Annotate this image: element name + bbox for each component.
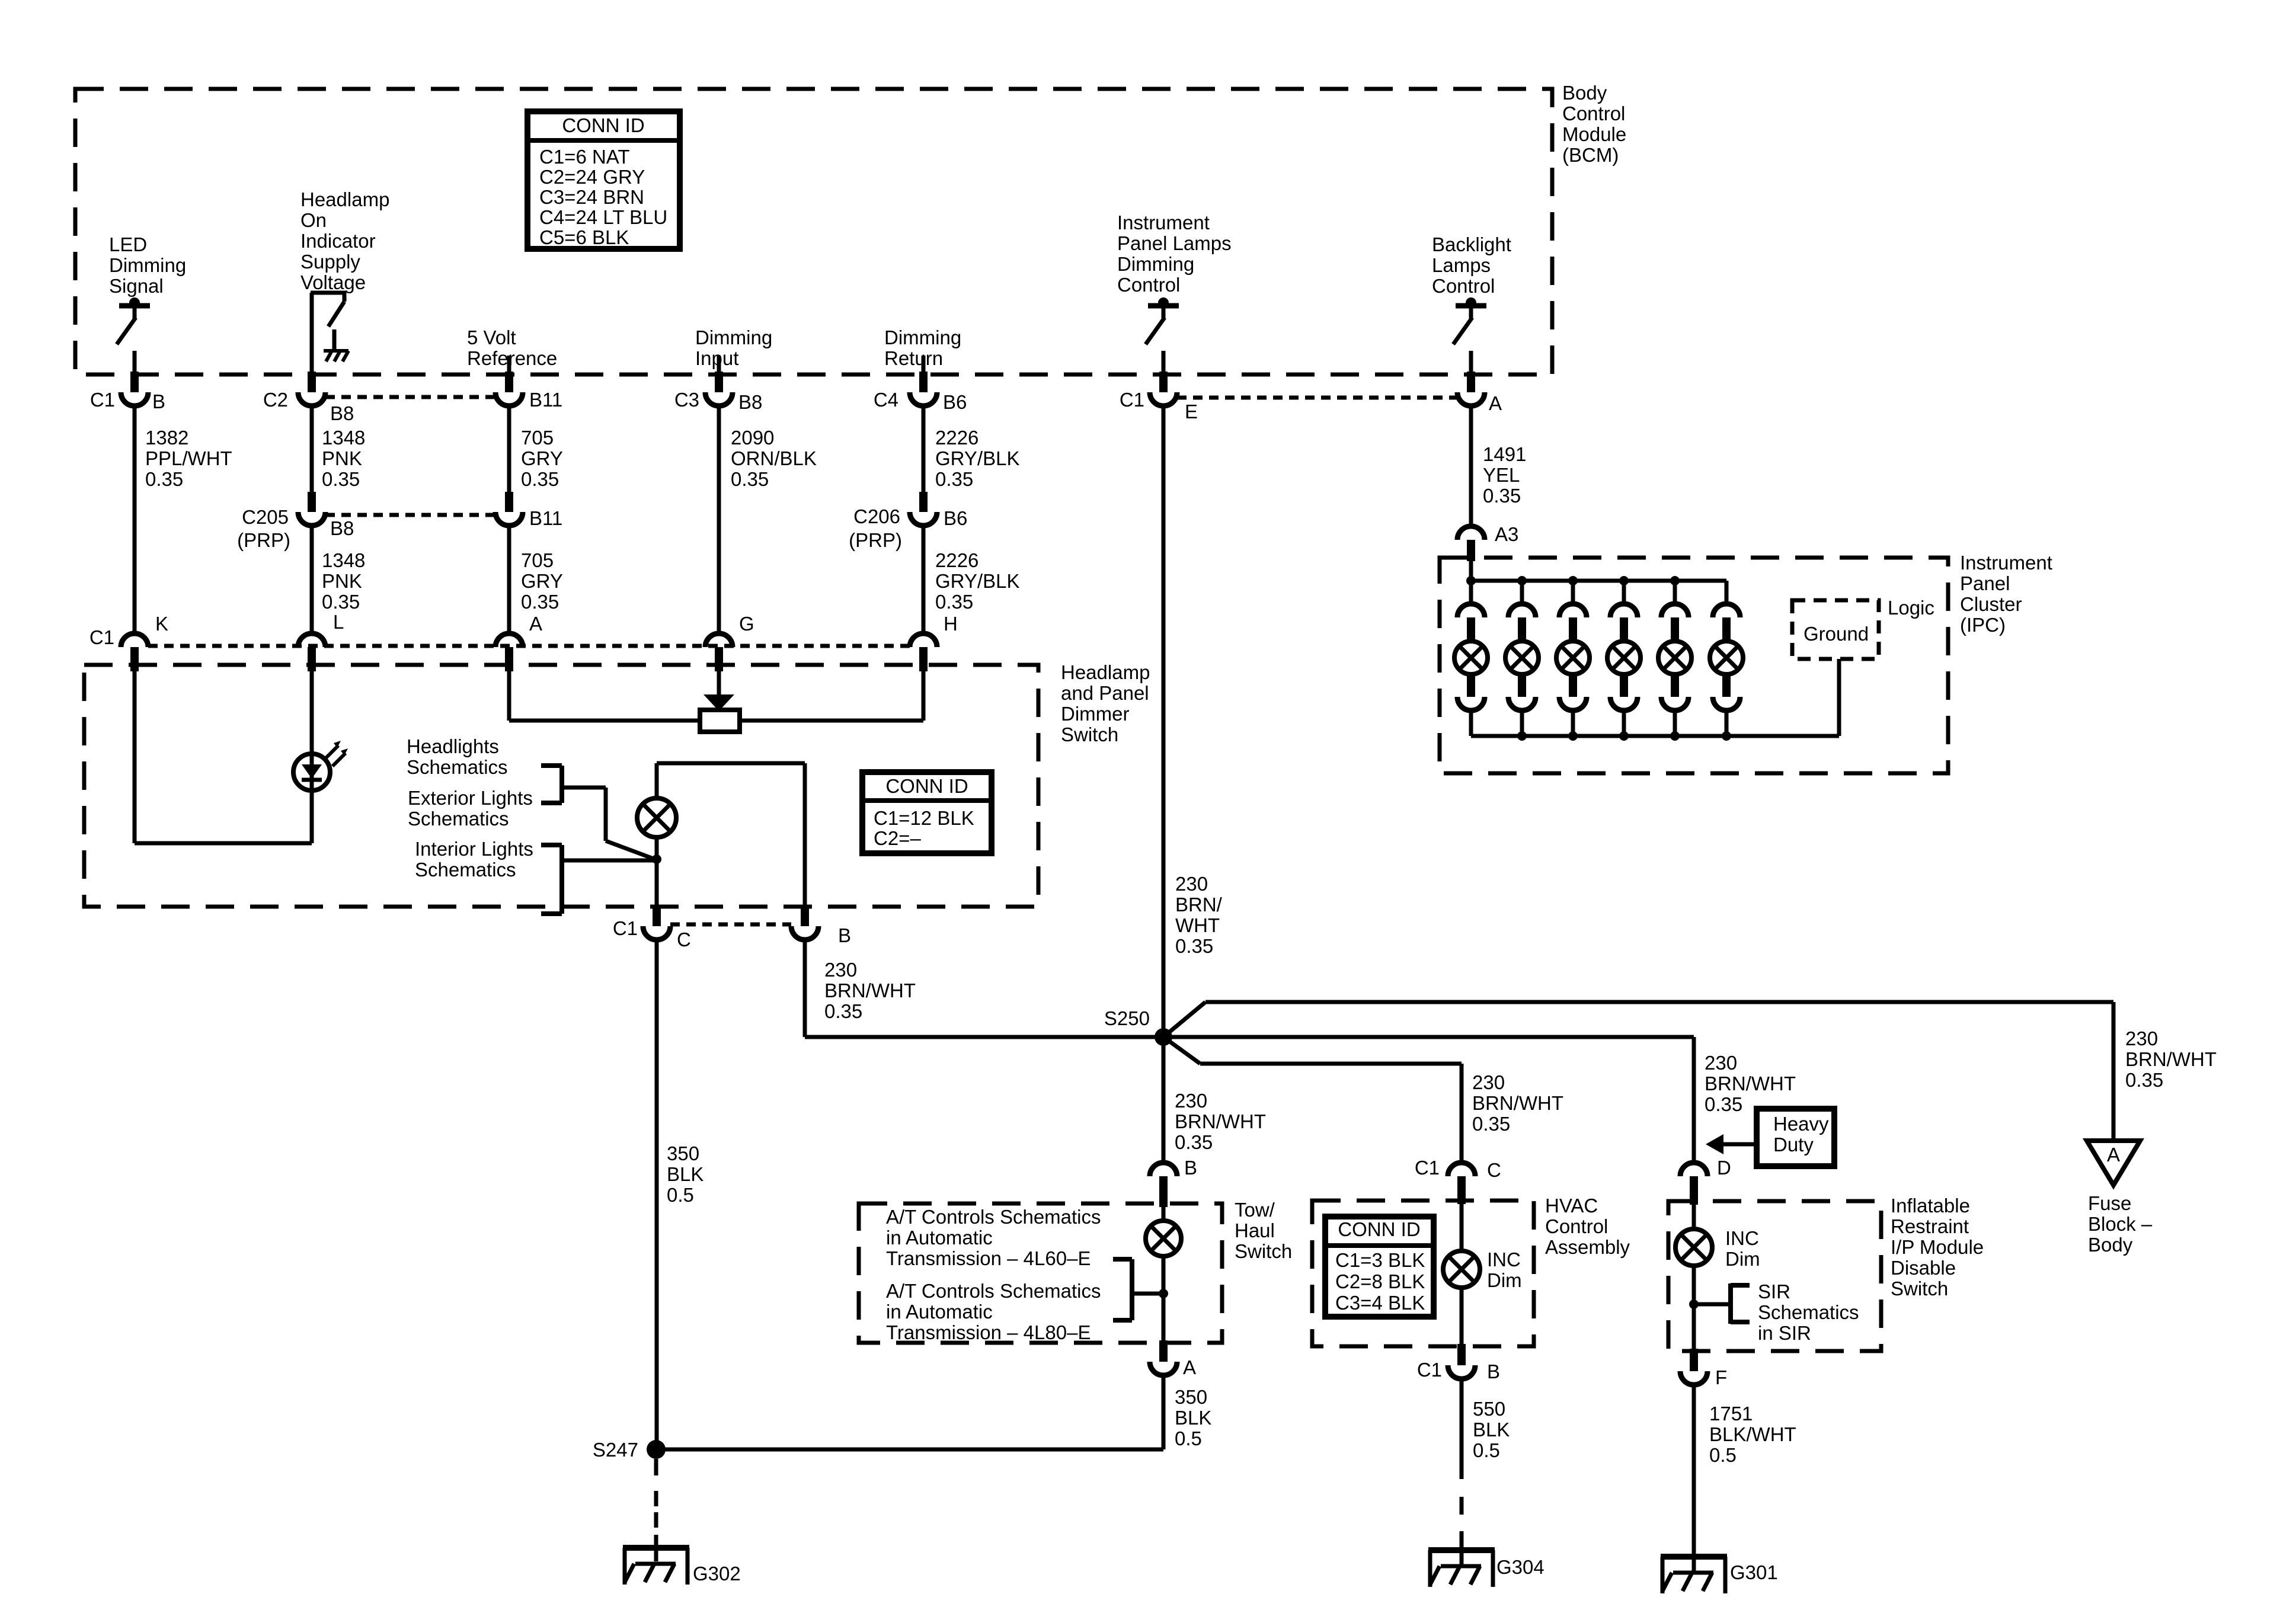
svg-text:Inflatable: Inflatable — [1891, 1195, 1970, 1217]
resistor element of dimmer potentiometer — [700, 710, 740, 732]
svg-text:Instrument: Instrument — [1960, 552, 2052, 574]
svg-text:Transmission – 4L80–E: Transmission – 4L80–E — [886, 1321, 1091, 1343]
svg-text:Dimming: Dimming — [884, 327, 961, 348]
svg-text:YEL: YEL — [1483, 464, 1520, 486]
label INC Dim (disable switch) — [1725, 1227, 1760, 1270]
svg-text:Supply: Supply — [300, 251, 360, 273]
dotted connector line K-L-A-G-H — [148, 644, 910, 648]
svg-text:CONN ID: CONN ID — [1338, 1218, 1420, 1240]
connector C1 pin K — [89, 613, 168, 671]
svg-text:2090: 2090 — [731, 427, 774, 449]
svg-text:Control: Control — [1562, 103, 1625, 124]
IPC backlight bulb 2 with sockets — [1505, 576, 1539, 736]
svg-text:A: A — [2107, 1144, 2120, 1166]
wire 230 BRN/WHT 0.35 to HVAC — [1462, 1064, 1563, 1163]
svg-text:A/T Controls Schematics: A/T Controls Schematics — [886, 1280, 1101, 1302]
svg-text:I/P Module: I/P Module — [1891, 1236, 1984, 1258]
connector C1 pin B (HVAC) — [1417, 1344, 1500, 1382]
svg-text:C3=24 BRN: C3=24 BRN — [539, 186, 644, 208]
svg-text:PNK: PNK — [322, 570, 362, 592]
svg-text:Dimming: Dimming — [695, 327, 772, 348]
wire 230 BRN/WHT 0.35 to fuse block — [2113, 1002, 2217, 1141]
connector C206 (PRP) pin B6 — [849, 492, 967, 551]
wire HVAC lamp to pin B — [1460, 1288, 1464, 1344]
svg-text:Body: Body — [2088, 1234, 2133, 1256]
wire dimming return inside BCM — [922, 356, 926, 375]
connector pin A (backlight lamps control) — [1457, 372, 1502, 414]
connector pin L — [298, 611, 344, 671]
connector C2 pin B8 — [263, 372, 354, 424]
label Headlights Schematics — [407, 735, 508, 778]
svg-text:Lamps: Lamps — [1432, 254, 1491, 276]
wire 705 GRY 0.35 upper — [509, 406, 563, 492]
svg-text:0.5: 0.5 — [1175, 1427, 1202, 1449]
wire 350 BLK 0.5 from dimmer pin C — [657, 940, 703, 1449]
wire 1348 PNK 0.35 lower — [312, 526, 365, 635]
svg-text:Dimming: Dimming — [109, 254, 186, 276]
bracket to A/T controls schematics — [1113, 1259, 1163, 1320]
label Headlamp and Panel Dimmer Switch — [1061, 661, 1150, 745]
svg-text:G304: G304 — [1496, 1556, 1544, 1578]
svg-text:C3: C3 — [674, 389, 699, 411]
IPC backlight bulb 6 with sockets — [1710, 581, 1743, 736]
svg-text:G301: G301 — [1730, 1561, 1778, 1583]
splice S247 — [593, 1439, 666, 1461]
wire tow/haul lamp to pin A — [1162, 1256, 1166, 1340]
svg-text:Switch: Switch — [1061, 724, 1118, 745]
svg-text:Disable: Disable — [1891, 1257, 1956, 1279]
dotted connector line E to A — [1177, 396, 1457, 400]
label Instrument Panel Lamps Dimming Control — [1117, 212, 1232, 296]
svg-text:Control: Control — [1117, 274, 1180, 296]
label Interior Lights Schematics — [415, 838, 533, 881]
connector pin A (tow/haul) — [1150, 1340, 1196, 1378]
svg-text:Exterior Lights: Exterior Lights — [408, 787, 533, 809]
wire 230 BRN/WHT 0.35 from pin E — [1163, 406, 1223, 1037]
svg-text:CONN ID: CONN ID — [885, 775, 968, 797]
svg-text:0.35: 0.35 — [1175, 935, 1213, 957]
connector pin F — [1680, 1349, 1727, 1388]
svg-text:B8: B8 — [330, 402, 354, 424]
svg-text:Dim: Dim — [1725, 1248, 1760, 1270]
wire L leg above LED — [310, 671, 314, 754]
svg-text:Restraint: Restraint — [1891, 1215, 1969, 1237]
svg-text:Schematics: Schematics — [407, 756, 508, 778]
svg-text:C2=24 GRY: C2=24 GRY — [539, 166, 645, 188]
label INC Dim (HVAC) — [1487, 1249, 1522, 1291]
wire from dimmer lamp bottom — [655, 836, 659, 905]
svg-text:A/T Controls Schematics: A/T Controls Schematics — [886, 1206, 1101, 1228]
wire IPC bus to logic ground — [1837, 659, 1841, 736]
connector pin B (dimmer) — [791, 905, 851, 946]
svg-text:(IPC): (IPC) — [1960, 614, 2006, 636]
ground inside BCM for headlamp-on indicator — [324, 329, 348, 361]
svg-text:Block –: Block – — [2088, 1213, 2153, 1235]
wire over to pin B — [657, 761, 805, 766]
label SIR Schematics in SIR — [1758, 1281, 1859, 1344]
label Logic — [1888, 597, 1934, 619]
label Tow/ Haul Switch — [1235, 1199, 1292, 1262]
svg-text:0.35: 0.35 — [2125, 1069, 2163, 1091]
Headlamp and Panel Dimmer Switch dashed box — [84, 665, 1038, 907]
wire S250 down-right branch to HVAC — [1163, 1037, 1462, 1064]
svg-text:C2=–: C2=– — [874, 827, 921, 849]
wire 230 BRN/WHT 0.35 to tow/haul — [1175, 1090, 1266, 1153]
label LED Dimming Signal — [109, 233, 186, 297]
svg-text:0.35: 0.35 — [935, 468, 973, 490]
svg-text:Ground: Ground — [1803, 623, 1869, 645]
svg-text:Voltage: Voltage — [300, 271, 366, 293]
IPC logic ground dashed box — [1792, 600, 1879, 659]
svg-text:0.35: 0.35 — [521, 468, 559, 490]
connector pin A (dimmer) — [495, 613, 542, 671]
HVAC Control Assembly dashed box — [1312, 1201, 1534, 1346]
svg-text:in Automatic: in Automatic — [886, 1227, 993, 1249]
wire 2226 GRY/BLK 0.35 upper — [923, 406, 1019, 492]
switch Backlight Lamps Control driver — [1453, 297, 1486, 375]
svg-text:5 Volt: 5 Volt — [467, 327, 516, 348]
switch LED Dimming Signal driver — [117, 297, 150, 375]
svg-text:Logic: Logic — [1888, 597, 1934, 619]
lamp tow/haul switch illumination — [1146, 1207, 1181, 1256]
svg-text:A: A — [1489, 392, 1502, 414]
svg-text:L: L — [333, 611, 344, 633]
connector C1 pin E — [1120, 372, 1198, 422]
svg-text:Control: Control — [1545, 1215, 1608, 1237]
svg-text:GRY: GRY — [521, 570, 563, 592]
svg-text:A: A — [529, 613, 542, 635]
wire S247 to ground G302 — [654, 1459, 658, 1561]
bracket to SIR schematics — [1697, 1283, 1750, 1324]
svg-text:Tow/: Tow/ — [1235, 1199, 1275, 1221]
svg-text:350: 350 — [1175, 1386, 1207, 1408]
label Dimming Return — [884, 327, 961, 369]
wire K leg inside dimmer — [133, 671, 137, 843]
splice S250 — [1104, 1007, 1172, 1046]
svg-text:S247: S247 — [593, 1439, 638, 1461]
bracket to headlights/exterior lights schematics — [541, 766, 655, 859]
svg-text:C206: C206 — [853, 505, 900, 527]
svg-text:A3: A3 — [1495, 523, 1518, 545]
svg-text:Cluster: Cluster — [1960, 593, 2022, 615]
svg-text:1491: 1491 — [1483, 443, 1526, 465]
label Exterior Lights Schematics — [408, 787, 533, 830]
connector C1 pin C (HVAC) — [1415, 1157, 1501, 1204]
svg-text:B6: B6 — [943, 391, 967, 413]
svg-text:Reference: Reference — [467, 347, 557, 369]
svg-text:0.35: 0.35 — [731, 468, 769, 490]
wire 230 BRN/WHT 0.35 to disable switch — [1694, 1037, 1796, 1163]
Tow/Haul Switch dashed box — [859, 1204, 1222, 1343]
connector C1 pin B — [90, 372, 165, 412]
svg-text:Module: Module — [1562, 123, 1626, 145]
svg-text:0.35: 0.35 — [521, 591, 559, 613]
potentiometer wiper arrow from pin G — [703, 671, 734, 711]
svg-text:0.35: 0.35 — [1705, 1093, 1742, 1115]
svg-text:0.5: 0.5 — [1473, 1439, 1500, 1461]
svg-text:BRN/WHT: BRN/WHT — [824, 980, 916, 1001]
label A/T Controls Schematics 4L60-E — [886, 1206, 1101, 1269]
svg-text:C1: C1 — [1415, 1157, 1440, 1179]
svg-text:BLK: BLK — [667, 1163, 703, 1185]
svg-text:C1: C1 — [613, 917, 638, 939]
svg-text:HVAC: HVAC — [1545, 1195, 1598, 1217]
connector C4 pin B6 — [874, 372, 967, 413]
wire L leg below LED — [310, 790, 314, 843]
svg-text:in Automatic: in Automatic — [886, 1301, 993, 1323]
svg-text:C1: C1 — [1120, 389, 1144, 411]
svg-text:C1=12 BLK: C1=12 BLK — [874, 807, 974, 829]
IPC backlight bulb 5 with sockets — [1658, 576, 1691, 736]
svg-text:GRY/BLK: GRY/BLK — [935, 570, 1019, 592]
dotted connector line C2 to B11 — [325, 395, 495, 399]
label Body Control Module (BCM) — [1562, 82, 1626, 166]
svg-text:BLK: BLK — [1473, 1419, 1510, 1441]
wire disable lamp to pin F — [1692, 1266, 1696, 1349]
junction tow/haul lamp tap — [1159, 1289, 1168, 1298]
svg-text:0.35: 0.35 — [322, 591, 360, 613]
svg-text:C4: C4 — [874, 389, 898, 411]
svg-text:B11: B11 — [529, 389, 562, 411]
connector in-line pin A3 — [1457, 523, 1518, 561]
connector pin G — [705, 613, 754, 671]
IPC backlight bulb 3 with sockets — [1556, 576, 1590, 736]
wire A3 into IPC — [1469, 560, 1473, 581]
wire H leg to potentiometer — [740, 671, 923, 721]
svg-text:PNK: PNK — [322, 447, 362, 469]
label Ground — [1803, 623, 1869, 645]
svg-text:ORN/BLK: ORN/BLK — [731, 447, 817, 469]
svg-text:Indicator: Indicator — [300, 230, 376, 252]
svg-text:INC: INC — [1725, 1227, 1759, 1249]
svg-text:Interior Lights: Interior Lights — [415, 838, 533, 860]
dotted connector line C to B — [670, 923, 791, 927]
svg-text:S250: S250 — [1104, 1007, 1150, 1029]
wire pin B leg inside dimmer — [803, 763, 807, 907]
svg-text:C1: C1 — [1417, 1359, 1442, 1381]
svg-text:D: D — [1717, 1157, 1731, 1179]
svg-text:in SIR: in SIR — [1758, 1322, 1811, 1344]
label HVAC Control Assembly — [1545, 1195, 1630, 1258]
svg-text:C1: C1 — [89, 626, 114, 648]
svg-text:550: 550 — [1473, 1398, 1505, 1420]
svg-text:Body: Body — [1562, 82, 1607, 104]
svg-text:Switch: Switch — [1891, 1278, 1948, 1299]
svg-text:2226: 2226 — [935, 549, 978, 571]
svg-text:C5=6 BLK: C5=6 BLK — [539, 226, 629, 248]
svg-text:C: C — [677, 929, 691, 950]
svg-text:230: 230 — [824, 959, 857, 981]
svg-text:350: 350 — [667, 1142, 699, 1164]
Inflatable Restraint I/P Module Disable Switch dashed box — [1668, 1201, 1881, 1351]
svg-text:Haul: Haul — [1235, 1219, 1275, 1241]
wire 230 BRN/WHT 0.35 from dimmer pin B — [805, 940, 1163, 1037]
svg-text:LED: LED — [109, 233, 147, 255]
svg-text:0.35: 0.35 — [322, 468, 360, 490]
svg-text:230: 230 — [1472, 1071, 1505, 1093]
svg-text:Panel Lamps: Panel Lamps — [1117, 232, 1232, 254]
svg-text:GRY: GRY — [521, 447, 563, 469]
svg-text:Schematics: Schematics — [415, 859, 516, 881]
svg-text:Headlamp: Headlamp — [1061, 661, 1150, 683]
svg-text:BRN/: BRN/ — [1175, 894, 1223, 916]
svg-text:F: F — [1715, 1366, 1727, 1388]
label A/T Controls Schematics 4L80-E — [886, 1280, 1101, 1343]
connector in-line pin B11 lower — [495, 492, 562, 529]
svg-text:Signal: Signal — [109, 275, 164, 297]
wire 350 BLK 0.5 to S247 — [656, 1375, 1211, 1449]
wire 5V reference inside BCM — [507, 356, 511, 375]
svg-text:B: B — [838, 924, 851, 946]
wire S250 up-right branch to fuse block — [1163, 1002, 2113, 1037]
arrow from Heavy Duty tag to wire — [1706, 1134, 1755, 1154]
wire dimming input inside BCM — [717, 356, 721, 375]
svg-text:Headlights: Headlights — [407, 735, 499, 757]
CONN ID table for BCM connectors — [527, 111, 680, 249]
svg-text:705: 705 — [521, 427, 554, 449]
svg-text:CONN ID: CONN ID — [562, 114, 644, 136]
svg-text:B: B — [1184, 1157, 1197, 1179]
svg-text:Dim: Dim — [1487, 1269, 1522, 1291]
svg-text:GRY/BLK: GRY/BLK — [935, 447, 1019, 469]
svg-text:Heavy: Heavy — [1773, 1113, 1829, 1135]
svg-text:BRN/WHT: BRN/WHT — [1705, 1073, 1796, 1094]
svg-text:SIR: SIR — [1758, 1281, 1790, 1302]
svg-text:Switch: Switch — [1235, 1240, 1292, 1262]
Heavy Duty tag box — [1757, 1109, 1834, 1166]
svg-text:G302: G302 — [693, 1563, 741, 1585]
label Fuse Block - Body — [2088, 1192, 2153, 1256]
svg-text:C205: C205 — [242, 506, 289, 528]
svg-text:Return: Return — [884, 347, 943, 369]
dotted connector line C205 to B11 — [325, 513, 495, 517]
label Headlamp On Indicator Supply Voltage — [300, 188, 389, 293]
svg-text:Instrument: Instrument — [1117, 212, 1210, 233]
svg-text:(PRP): (PRP) — [237, 529, 290, 551]
svg-text:C2=8 BLK: C2=8 BLK — [1335, 1270, 1425, 1292]
wire 1382 PPL/WHT 0.35 — [135, 406, 232, 635]
wire 550 BLK 0.5 to ground G304 — [1462, 1379, 1510, 1565]
label Inflatable Restraint I/P Module Disable Switch — [1891, 1195, 1984, 1299]
connector C3 pin B8 — [674, 372, 763, 413]
svg-text:H: H — [944, 613, 958, 635]
svg-text:Assembly: Assembly — [1545, 1236, 1630, 1258]
ground G302 — [623, 1547, 741, 1585]
svg-text:PPL/WHT: PPL/WHT — [145, 447, 232, 469]
wire from dimmer lamp top — [655, 763, 659, 799]
svg-text:B6: B6 — [944, 507, 967, 529]
svg-text:Dimming: Dimming — [1117, 253, 1194, 275]
label Dimming Input — [695, 327, 772, 369]
svg-text:B11: B11 — [529, 507, 562, 529]
svg-text:Transmission – 4L60–E: Transmission – 4L60–E — [886, 1247, 1091, 1269]
svg-text:G: G — [739, 613, 754, 635]
IPC feed bus — [1466, 576, 1726, 585]
svg-text:Backlight: Backlight — [1432, 233, 1511, 255]
svg-text:BRN/WHT: BRN/WHT — [1175, 1110, 1266, 1132]
wire S250 right branch to disable switch — [1163, 1035, 1694, 1039]
svg-text:E: E — [1185, 401, 1198, 422]
svg-text:0.5: 0.5 — [667, 1184, 694, 1206]
svg-text:0.35: 0.35 — [1483, 485, 1521, 507]
svg-text:Dimmer: Dimmer — [1061, 703, 1129, 725]
svg-text:230: 230 — [1175, 873, 1208, 895]
svg-text:0.35: 0.35 — [1472, 1113, 1510, 1135]
connector C1 pin C — [613, 905, 691, 950]
switch Headlamp On Indicator driver with ground — [311, 293, 346, 375]
svg-text:Duty: Duty — [1773, 1134, 1814, 1156]
off-page triangle A to Fuse Block - Body — [2087, 1141, 2140, 1185]
svg-text:Panel: Panel — [1960, 572, 2010, 594]
svg-text:B: B — [152, 391, 165, 412]
svg-text:C4=24 LT BLU: C4=24 LT BLU — [539, 206, 667, 228]
svg-text:Schematics: Schematics — [408, 808, 509, 830]
svg-text:0.35: 0.35 — [145, 468, 183, 490]
connector pin H — [910, 613, 958, 671]
svg-text:(BCM): (BCM) — [1562, 144, 1619, 166]
svg-text:and Panel: and Panel — [1061, 682, 1149, 704]
IPC backlight bulb 4 with sockets — [1607, 576, 1641, 736]
svg-text:B: B — [1487, 1361, 1500, 1382]
svg-text:1751: 1751 — [1709, 1403, 1753, 1425]
CONN ID table for HVAC — [1325, 1217, 1434, 1317]
svg-text:C1=3 BLK: C1=3 BLK — [1335, 1249, 1425, 1271]
connector C205 (PRP) pin B8 — [237, 492, 354, 551]
svg-text:C: C — [1487, 1159, 1501, 1181]
svg-text:B8: B8 — [738, 391, 762, 413]
label Backlight Lamps Control — [1432, 233, 1511, 297]
connector pin B (tow/haul) — [1150, 1037, 1197, 1207]
svg-text:(PRP): (PRP) — [849, 529, 902, 551]
svg-text:C1=6 NAT: C1=6 NAT — [539, 146, 630, 168]
label 5 Volt Reference — [467, 327, 557, 369]
IPC ground bus — [1471, 731, 1839, 741]
svg-text:C1: C1 — [90, 389, 115, 411]
wire 1751 BLK/WHT 0.5 to ground G301 — [1694, 1385, 1796, 1571]
svg-text:Headlamp: Headlamp — [300, 188, 389, 210]
svg-text:K: K — [155, 613, 168, 635]
wire 705 GRY 0.35 lower — [509, 526, 563, 635]
bracket to interior lights schematics — [541, 845, 655, 914]
wire 1491 YEL 0.35 — [1471, 406, 1526, 526]
svg-text:0.35: 0.35 — [935, 591, 973, 613]
wire 1348 PNK 0.35 upper — [312, 406, 365, 492]
svg-text:1382: 1382 — [145, 427, 188, 449]
connector pin B11 (5 volt reference) — [495, 372, 562, 411]
wire 2090 ORN/BLK 0.35 — [719, 406, 817, 635]
svg-text:BLK: BLK — [1175, 1407, 1211, 1429]
Instrument Panel Cluster dashed box — [1440, 558, 1948, 773]
svg-text:705: 705 — [521, 549, 554, 571]
lamp HVAC INC Dim — [1443, 1204, 1480, 1288]
ground G301 — [1661, 1555, 1778, 1593]
svg-text:Control: Control — [1432, 275, 1495, 297]
lamp disable switch INC Dim — [1675, 1205, 1712, 1266]
svg-text:BRN/WHT: BRN/WHT — [2125, 1048, 2217, 1070]
ground G304 — [1428, 1549, 1544, 1587]
svg-text:230: 230 — [2125, 1028, 2158, 1049]
svg-text:On: On — [300, 209, 327, 231]
svg-text:230: 230 — [1705, 1052, 1737, 1074]
label Instrument Panel Cluster (IPC) — [1960, 552, 2052, 636]
LED photodiode symbol in dimmer switch — [293, 741, 348, 790]
wire A leg to potentiometer — [509, 671, 700, 721]
svg-text:WHT: WHT — [1175, 914, 1220, 936]
svg-text:1348: 1348 — [322, 427, 365, 449]
svg-text:BRN/WHT: BRN/WHT — [1472, 1092, 1563, 1114]
svg-text:2226: 2226 — [935, 427, 978, 449]
switch Instrument Panel Lamps Dimming Control driver — [1146, 297, 1179, 375]
